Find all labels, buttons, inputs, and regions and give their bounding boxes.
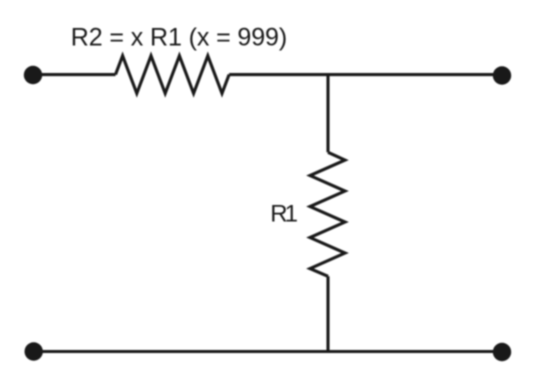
wire: junction node down to resistor R1: [326, 75, 329, 153]
wire: resistor R1 to bottom wire: [326, 276, 329, 351]
wire: resistor R2 to junction node: [229, 73, 328, 76]
terminal node top-right: [493, 66, 511, 84]
resistor R1: [310, 152, 345, 276]
wire: bottom rail: [34, 350, 502, 353]
wire: top-left terminal to resistor R2: [33, 73, 116, 76]
terminal node bottom-right: [493, 343, 511, 361]
svg-text:R2 = x R1 (x = 999): R2 = x R1 (x = 999): [71, 24, 287, 52]
terminal node top-left: [24, 66, 42, 84]
wire: junction node to top-right terminal: [328, 73, 502, 76]
resistor R2: [116, 56, 230, 94]
svg-text:R1: R1: [270, 200, 297, 227]
terminal node bottom-left: [25, 342, 43, 360]
